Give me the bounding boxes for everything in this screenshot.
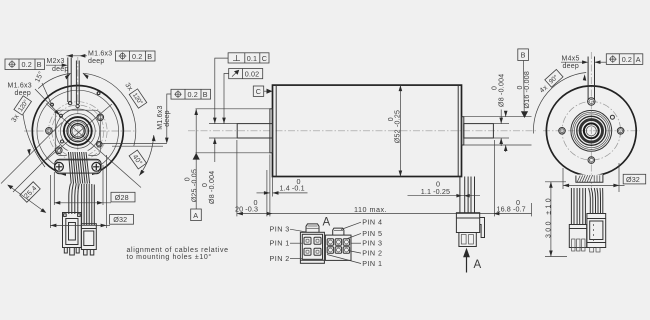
connector left large bbox=[63, 213, 82, 248]
svg-text:B: B bbox=[147, 52, 152, 61]
svg-text:M4x5: M4x5 bbox=[562, 55, 580, 62]
hole M2 top bbox=[68, 101, 71, 104]
svg-text:16.8 -0.7: 16.8 -0.7 bbox=[497, 204, 526, 213]
arc 40 deg bbox=[139, 135, 153, 175]
arc 3x120 left bbox=[38, 73, 70, 88]
arrow 16.8 left bbox=[493, 212, 499, 216]
inner housing circle bbox=[37, 90, 119, 172]
left outer arc bbox=[23, 114, 45, 167]
circle r17 bbox=[574, 114, 608, 148]
connector left right view bbox=[569, 225, 586, 248]
hole upper right bbox=[97, 114, 104, 121]
M1.6 hole axis lines bbox=[75, 61, 77, 105]
ring r14.6 bbox=[577, 116, 606, 145]
svg-text:0: 0 bbox=[184, 177, 191, 181]
SECTION: PINOUT bbox=[270, 217, 383, 269]
connector left feet bbox=[64, 248, 67, 254]
svg-text:0.2: 0.2 bbox=[22, 60, 32, 69]
svg-text:A: A bbox=[474, 259, 482, 271]
leader M4x5 bbox=[561, 61, 586, 63]
svg-text:to mounting holes ±10°: to mounting holes ±10° bbox=[127, 253, 212, 261]
svg-text:B: B bbox=[203, 90, 208, 99]
dim 25.4 line bbox=[9, 186, 46, 213]
wire end lines bbox=[594, 175, 600, 182]
hole mid left bbox=[61, 140, 64, 143]
svg-text:A: A bbox=[636, 55, 641, 64]
extension text end right bbox=[531, 203, 533, 216]
bottom shared dimension line bbox=[237, 213, 532, 215]
middle connector latch bbox=[480, 218, 485, 238]
pin circle upper right bbox=[97, 92, 100, 95]
cable group left right view bbox=[571, 188, 585, 225]
diagonal steep line bbox=[1, 123, 62, 184]
boss circle r20 bbox=[571, 110, 612, 151]
pin circle upper left bbox=[51, 103, 54, 106]
left boss dia25 bbox=[270, 109, 273, 153]
svg-text:PIN 2: PIN 2 bbox=[270, 254, 290, 263]
bolt circle 29 bbox=[49, 102, 108, 161]
label 15 deg rotated bbox=[33, 70, 45, 84]
svg-text:1.1 -0.25: 1.1 -0.25 bbox=[421, 187, 450, 196]
pinout 6pin latch bbox=[333, 228, 344, 235]
right boss dia16 bbox=[462, 117, 464, 145]
boss circle 25 bbox=[56, 109, 100, 153]
screw left bbox=[55, 162, 64, 171]
svg-text:0.1: 0.1 bbox=[247, 54, 257, 63]
arrow 20 left bbox=[237, 212, 243, 216]
svg-text:Ø52 -0.25: Ø52 -0.25 bbox=[395, 110, 402, 143]
label M1.6x3 deep right rotated bbox=[157, 105, 171, 129]
dia25 dimension line bbox=[195, 109, 197, 209]
cable bundle right three wires bbox=[82, 184, 95, 225]
svg-text:deep: deep bbox=[563, 63, 580, 70]
body left inner face line bbox=[275, 85, 277, 176]
right shaft extension lines bbox=[493, 123, 509, 125]
connector right feet bbox=[84, 250, 88, 256]
label dia52 tol rotated bbox=[388, 110, 402, 143]
dia32 extension lines bbox=[49, 175, 51, 228]
hatch lines bbox=[577, 175, 593, 182]
dia16 right dim lines bbox=[505, 111, 507, 117]
connector left tabs bbox=[572, 248, 575, 252]
svg-text:C: C bbox=[262, 54, 267, 63]
middle connector lower bbox=[459, 233, 476, 247]
SECTION: LEFT VIEW bbox=[1, 50, 229, 260]
motor body outline bbox=[273, 85, 462, 176]
pinout connector 6pin body bbox=[325, 235, 351, 260]
label 3x120 left rotated box bbox=[8, 96, 31, 124]
connector right right view bbox=[587, 214, 606, 248]
horizontal centerline right view bbox=[543, 130, 640, 132]
extension boss face left bbox=[269, 155, 271, 217]
ring r11 bbox=[580, 120, 602, 142]
svg-text:Ø28: Ø28 bbox=[115, 193, 129, 202]
right shaft dia8 bbox=[464, 124, 494, 138]
dim 300 line bbox=[550, 182, 552, 257]
dia8 right dim lines bbox=[500, 110, 502, 124]
arc 4x90 bbox=[533, 73, 586, 134]
svg-text:C: C bbox=[256, 87, 261, 96]
diagonal centerline 1 bbox=[46, 104, 112, 160]
extension body left face bbox=[272, 177, 274, 197]
cable hatch block bbox=[576, 175, 603, 183]
ribbon lower background bbox=[66, 174, 92, 184]
screw right bbox=[92, 162, 101, 171]
svg-text:deep: deep bbox=[52, 66, 69, 73]
datum B triangle bbox=[521, 111, 528, 118]
label dia16 right tol rotated bbox=[517, 71, 531, 109]
label dia25 tol rotated bbox=[184, 169, 198, 202]
bore circle bbox=[72, 125, 83, 136]
svg-text:Ø8 -0.004: Ø8 -0.004 bbox=[498, 74, 505, 107]
fcf position 0.2 B right bbox=[171, 89, 211, 99]
hole lower left bbox=[56, 147, 63, 154]
datum A box bbox=[191, 209, 202, 221]
svg-text:110 max.: 110 max. bbox=[354, 205, 387, 214]
svg-text:Ø8 -0.004: Ø8 -0.004 bbox=[209, 171, 216, 204]
dia32 dimension right view bbox=[563, 184, 624, 186]
svg-text:PIN 2: PIN 2 bbox=[362, 249, 382, 258]
mounting square bbox=[55, 110, 100, 155]
fcf position 0.2 B top bbox=[116, 51, 156, 61]
svg-text:20 -0.3: 20 -0.3 bbox=[235, 204, 258, 213]
svg-text:0.2: 0.2 bbox=[188, 90, 198, 99]
leader fcf right bbox=[167, 94, 171, 142]
label 40 deg rotated box bbox=[129, 150, 146, 169]
hole top bbox=[588, 98, 595, 105]
label 4x90 rotated box bbox=[537, 69, 563, 94]
stray arrow bbox=[152, 135, 156, 141]
svg-text:A: A bbox=[323, 217, 331, 229]
bearing ring mid bbox=[67, 120, 89, 142]
svg-text:0.2: 0.2 bbox=[132, 52, 142, 61]
dia52 dimension line bbox=[399, 85, 401, 176]
M2 hole axis lines bbox=[67, 58, 69, 103]
dia32 label box bbox=[110, 215, 134, 225]
dia8 left dim line lower bbox=[214, 138, 216, 162]
perpendicularity frame 0.1 C bbox=[228, 53, 269, 63]
SECTION: MIDDLE VIEW bbox=[184, 49, 536, 273]
arrow 20 right bbox=[267, 212, 273, 216]
hole left bbox=[559, 128, 566, 135]
left shaft extension lines bbox=[209, 123, 238, 125]
svg-text:0: 0 bbox=[517, 85, 524, 89]
label 300 rotated bbox=[545, 196, 552, 238]
horizontal centerline bbox=[24, 130, 136, 132]
bolt circle right view bbox=[562, 102, 621, 161]
svg-text:Ø32: Ø32 bbox=[626, 175, 640, 184]
dim 25.4 extension diagonal bbox=[13, 145, 60, 192]
label 3x120 right rotated box bbox=[123, 80, 146, 108]
leader M1.6x3 top bbox=[67, 55, 88, 57]
left boss extension lines bbox=[196, 108, 271, 110]
svg-text:PIN 1: PIN 1 bbox=[270, 239, 290, 248]
centerline main axis bbox=[188, 130, 536, 132]
left outer arc arrow bbox=[27, 149, 31, 156]
middle connector body bbox=[456, 213, 479, 233]
perpendicularity frame leader bbox=[215, 58, 228, 124]
svg-text:M1.6x3: M1.6x3 bbox=[8, 83, 32, 90]
fcf position 0.2 A bbox=[606, 54, 643, 65]
dim 300 extension top bbox=[545, 181, 566, 183]
pinout 4pin latch bbox=[306, 224, 319, 232]
cable ribbon bbox=[68, 152, 89, 184]
runout frame leader bbox=[224, 74, 229, 124]
svg-text:Ø32: Ø32 bbox=[113, 215, 127, 224]
datum B flag bbox=[518, 49, 529, 61]
SECTION: RIGHT VIEW bbox=[51, 52, 646, 257]
bore ring dark bbox=[584, 123, 599, 138]
svg-text:0.2: 0.2 bbox=[622, 55, 632, 64]
svg-text:1.4 -0.1: 1.4 -0.1 bbox=[280, 184, 305, 193]
M4 hole axis lines bbox=[587, 57, 589, 101]
svg-text:A: A bbox=[193, 211, 198, 220]
pin circle upper right bbox=[97, 92, 100, 95]
middle cable bundle bbox=[460, 177, 475, 213]
leader M2x3 bbox=[46, 64, 66, 66]
right boss extension lines bbox=[464, 116, 532, 118]
svg-text:0: 0 bbox=[491, 86, 498, 90]
hole left bbox=[46, 128, 53, 135]
runout frame 0.02 bbox=[229, 69, 263, 79]
feature extension lines right bbox=[100, 143, 167, 145]
dia28 label box bbox=[111, 192, 135, 202]
dia28 extension lines bbox=[53, 172, 55, 205]
outer circle right view bbox=[546, 86, 636, 176]
bore inner circle bbox=[586, 126, 596, 136]
hole right bbox=[617, 128, 624, 135]
svg-text:0.02: 0.02 bbox=[245, 70, 259, 79]
svg-text:PIN 1: PIN 1 bbox=[362, 259, 382, 268]
pinout 4pin pins bbox=[304, 237, 321, 255]
cable bundle left two wires bbox=[69, 184, 79, 215]
svg-text:0: 0 bbox=[202, 183, 209, 187]
svg-text:M1.6x3: M1.6x3 bbox=[157, 105, 164, 129]
dim 1.4 -0.1 bbox=[257, 192, 270, 194]
dia32 dimension bbox=[50, 224, 110, 226]
leader 15 deg bbox=[42, 83, 51, 103]
shaft ring bbox=[71, 124, 86, 139]
dia32 extension right view bbox=[618, 163, 620, 192]
diagonal centerline 2 bbox=[46, 104, 141, 188]
svg-text:PIN 5: PIN 5 bbox=[362, 229, 382, 238]
vertical centerline bbox=[77, 57, 79, 208]
dia32 left extension bbox=[562, 168, 564, 189]
pinout connector 4pin body bbox=[300, 232, 324, 263]
body right inner face line bbox=[457, 85, 459, 176]
svg-text:B: B bbox=[37, 60, 42, 69]
hole M1.6 top center bbox=[76, 104, 79, 107]
outer housing circle bbox=[32, 86, 123, 177]
dim 1.1 -0.25 bbox=[408, 195, 481, 197]
bolt circle 26 bbox=[52, 105, 104, 157]
extension shaft end right bbox=[494, 140, 496, 216]
dia32 label box right view bbox=[623, 174, 646, 184]
section arrow A bbox=[466, 255, 468, 273]
label dia8 left tol rotated bbox=[202, 171, 216, 204]
cable ribbon upper background bbox=[67, 151, 89, 161]
extension shaft end left bbox=[236, 140, 238, 216]
svg-text:PIN 3: PIN 3 bbox=[362, 239, 382, 248]
arc 3x120 right bbox=[83, 73, 136, 146]
pinout 4pin inner rect bbox=[302, 234, 322, 259]
hole bottom bbox=[588, 157, 595, 164]
svg-text:300 ±10: 300 ±10 bbox=[545, 196, 552, 238]
svg-text:B: B bbox=[521, 51, 526, 60]
leader M1.6x3 left bbox=[35, 89, 59, 114]
pinout 6pin pins bbox=[327, 239, 349, 253]
left shaft dia8 bbox=[237, 124, 272, 138]
fcf position 0.2 B left bbox=[5, 59, 45, 70]
cable clamp block bbox=[55, 159, 101, 173]
svg-text:PIN 4: PIN 4 bbox=[362, 218, 382, 227]
datum A triangle bbox=[193, 153, 200, 160]
svg-text:PIN 3: PIN 3 bbox=[270, 225, 290, 234]
bearing ring outer bbox=[64, 117, 92, 145]
cable group right right view bbox=[589, 188, 603, 214]
svg-text:deep: deep bbox=[88, 58, 105, 65]
dia28 dimension bbox=[54, 202, 111, 204]
label dia8 right tol rotated bbox=[491, 74, 505, 107]
svg-text:Ø25 -0.05: Ø25 -0.05 bbox=[191, 169, 198, 202]
svg-text:Ø16 -0.008: Ø16 -0.008 bbox=[524, 71, 531, 109]
svg-text:deep: deep bbox=[164, 110, 171, 127]
dim 25.4 rotated box bbox=[20, 182, 41, 203]
svg-text:M1.6x3: M1.6x3 bbox=[88, 50, 112, 57]
connector right tabs bbox=[590, 248, 594, 253]
dim 300 extension bottom bbox=[545, 256, 567, 258]
connector right small bbox=[81, 224, 96, 250]
circle r17 bbox=[60, 114, 95, 149]
pin hole bbox=[610, 115, 614, 119]
hole lower right bbox=[97, 141, 103, 147]
pin circle upper left bbox=[51, 103, 54, 106]
vertical centerline right view bbox=[590, 52, 592, 190]
circle r18.8 bbox=[573, 112, 610, 149]
hole upper left bbox=[60, 114, 63, 117]
datum C flag bbox=[253, 86, 263, 96]
